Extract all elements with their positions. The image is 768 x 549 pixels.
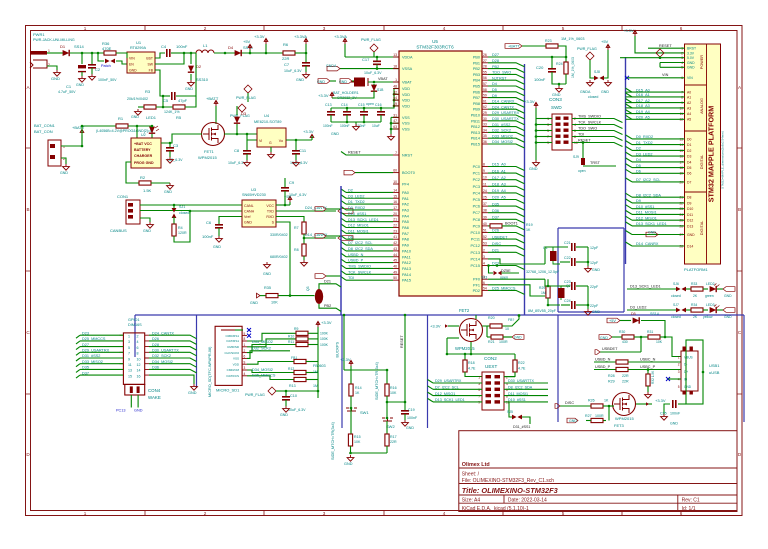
svg-text:D8_I2C2_SDA: D8_I2C2_SDA — [348, 247, 373, 251]
resistor R3 — [127, 89, 173, 109]
node USBDET — [600, 351, 641, 353]
diode D2 — [188, 52, 209, 82]
svg-text:D19_A4: D19_A4 — [492, 189, 506, 193]
svg-text:MICRO_SD1: MICRO_SD1 — [216, 388, 240, 393]
svg-text:PC6: PC6 — [473, 205, 480, 209]
svg-text:C6: C6 — [206, 220, 212, 225]
wire — [475, 315, 477, 319]
svg-text:+3.3V: +3.3V — [318, 93, 329, 98]
svg-text:13: 13 — [393, 53, 397, 57]
svg-text:DIGITAL: DIGITAL — [700, 221, 704, 236]
svg-text:51: 51 — [483, 229, 487, 233]
svg-text:ME6210-SOT89: ME6210-SOT89 — [254, 120, 281, 124]
svg-text:SW: SW — [148, 63, 154, 67]
svg-text:R26: R26 — [588, 399, 595, 403]
svg-text:R27: R27 — [585, 414, 592, 418]
svg-text:PC7: PC7 — [473, 211, 480, 215]
svg-text:C5: C5 — [163, 98, 169, 103]
wire — [404, 315, 406, 370]
svg-text:18: 18 — [393, 65, 397, 69]
svg-text:CANBUS: CANBUS — [110, 228, 127, 233]
svg-text:Q3: Q3 — [306, 286, 310, 291]
svg-text:1: 1 — [395, 78, 397, 82]
svg-text:R24: R24 — [556, 62, 563, 66]
svg-text:8M_8SV55_20pF: 8M_8SV55_20pF — [528, 309, 557, 313]
svg-text:PD2: PD2 — [473, 289, 480, 293]
svg-text:D25_MMCCS: D25_MMCCS — [492, 287, 516, 291]
svg-text:1M: 1M — [313, 384, 318, 388]
svg-text:D24_CANTX: D24_CANTX — [492, 105, 514, 109]
svg-text:DAT0/CS: DAT0/CS — [227, 374, 239, 378]
svg-text:1M_1%_0603: 1M_1%_0603 — [571, 57, 575, 78]
svg-text:100K: 100K — [320, 343, 329, 347]
svg-text:Size: A4: Size: A4 — [462, 498, 481, 504]
svg-text:1K: 1K — [604, 399, 609, 403]
svg-text:PA6: PA6 — [402, 226, 409, 230]
svg-text:39: 39 — [483, 215, 487, 219]
svg-text:D12_MISO1: D12_MISO1 — [636, 216, 657, 220]
svg-text:C11: C11 — [299, 148, 307, 153]
svg-text:12pF: 12pF — [590, 261, 599, 265]
svg-text:D8_I2C2_SDA: D8_I2C2_SDA — [508, 386, 533, 390]
svg-text:33: 33 — [483, 123, 487, 127]
svg-text:CMD/SD: CMD/SD — [227, 345, 240, 349]
svg-text:PB8: PB8 — [473, 102, 480, 106]
svg-text:31: 31 — [393, 113, 397, 117]
diode D3 — [234, 106, 247, 134]
svg-text:VDDA: VDDA — [402, 56, 413, 60]
svg-text:C14: C14 — [341, 103, 348, 107]
power +3.3V — [445, 324, 448, 328]
svg-text:10uF_6.3V: 10uF_6.3V — [284, 69, 302, 73]
svg-text:TXD: TXD — [267, 210, 275, 214]
svg-text:1M_1%_0603: 1M_1%_0603 — [561, 37, 584, 41]
svg-text:R5: R5 — [176, 115, 182, 120]
svg-text:R6: R6 — [283, 42, 289, 47]
svg-text:PA15: PA15 — [402, 279, 411, 283]
svg-text:GND: GND — [684, 385, 692, 389]
svg-text:B: B — [738, 207, 741, 212]
svg-text:D3_LED2: D3_LED2 — [636, 152, 652, 156]
svg-text:D8_I2C2_SDA: D8_I2C2_SDA — [636, 193, 661, 197]
solder jumper SJ1 — [172, 205, 190, 224]
svg-text:25: 25 — [483, 196, 487, 200]
svg-text:D19_A4: D19_A4 — [636, 110, 650, 114]
svg-text:Date: 2022-03-14: Date: 2022-03-14 — [508, 498, 547, 504]
ground — [585, 266, 592, 272]
ground — [605, 80, 612, 86]
solder jumper SJ6 — [676, 287, 686, 292]
wire platform digital nets — [632, 138, 685, 140]
power +5V — [289, 202, 291, 205]
svg-text:GND: GND — [296, 78, 304, 82]
svg-text:D6: D6 — [348, 235, 353, 239]
wire BOOT0 net — [355, 172, 393, 174]
svg-text:CANH: CANH — [244, 210, 255, 214]
svg-text:7: 7 — [478, 394, 480, 398]
svg-text:BST: BST — [146, 57, 153, 61]
svg-text:FB?: FB? — [508, 318, 514, 322]
svg-text:PB4: PB4 — [473, 79, 480, 83]
resistor R1 — [116, 116, 152, 128]
svg-text:D12_MISO1: D12_MISO1 — [435, 392, 455, 396]
svg-text:100nF: 100nF — [534, 77, 546, 82]
svg-text:19: 19 — [393, 102, 397, 106]
ground — [216, 236, 223, 242]
svg-text:CON4: CON4 — [148, 388, 161, 393]
svg-text:GND: GND — [514, 336, 522, 340]
svg-text:VSSA: VSSA — [402, 67, 413, 71]
resistor R4 — [172, 216, 190, 242]
svg-text:D1_TXD2: D1_TXD2 — [348, 200, 365, 204]
svg-text:green: green — [705, 294, 714, 298]
svg-text:+3.3V: +3.3V — [524, 99, 535, 104]
svg-text:3: 3 — [323, 26, 326, 31]
svg-text:57: 57 — [483, 82, 487, 86]
svg-text:D11: D11 — [687, 213, 693, 217]
capacitor C2 — [88, 53, 117, 82]
svg-text:PROG GND: PROG GND — [134, 161, 154, 165]
svg-text:GND: GND — [648, 231, 656, 235]
wire — [350, 411, 352, 434]
svg-text:9: 9 — [478, 401, 480, 405]
svg-text:5: 5 — [244, 332, 246, 336]
wire VSS rail — [391, 116, 399, 118]
ground — [264, 262, 271, 268]
wire PF1 net — [488, 285, 545, 296]
svg-text:DZ5E: DZ5E — [501, 269, 511, 273]
wire — [276, 204, 290, 206]
svg-text:PB0: PB0 — [473, 56, 480, 60]
svg-text:53: 53 — [483, 242, 487, 246]
svg-text:100nF_50V: 100nF_50V — [98, 78, 117, 82]
svg-text:A2: A2 — [687, 101, 691, 105]
svg-text:5: 5 — [678, 385, 680, 389]
capacitor C3 — [161, 143, 183, 162]
solder jumper SJ8 — [594, 76, 604, 81]
svg-text:D0: D0 — [687, 137, 691, 141]
svg-text:CHARGER: CHARGER — [134, 154, 153, 158]
resistor R13 — [247, 376, 294, 380]
svg-text:10: 10 — [393, 180, 397, 184]
svg-text:D12_MISO1: D12_MISO1 — [348, 224, 369, 228]
ground — [63, 164, 70, 170]
svg-text:C4: C4 — [161, 44, 167, 49]
svg-text:16: 16 — [393, 200, 397, 204]
svg-text:D33_MISO2: D33_MISO2 — [252, 340, 273, 344]
svg-text:D30_USARTTX: D30_USARTTX — [152, 349, 179, 353]
svg-text:WPM2015: WPM2015 — [198, 155, 217, 160]
svg-text:9: 9 — [128, 357, 130, 361]
capacitor C1 — [58, 53, 86, 94]
wire — [276, 222, 290, 296]
svg-text:GND: GND — [344, 462, 353, 466]
svg-text:D10_#SS1: D10_#SS1 — [508, 398, 526, 402]
svg-text:D4: D4 — [687, 160, 691, 164]
ground — [646, 232, 658, 237]
svg-text:D15_A0: D15_A0 — [492, 163, 506, 167]
svg-text:GND: GND — [188, 391, 197, 395]
wire VBUS — [665, 337, 681, 357]
svg-text:NJTRST: NJTRST — [492, 76, 507, 80]
svg-text:D18_A3: D18_A3 — [636, 104, 650, 108]
svg-text:D11_MOSI1: D11_MOSI1 — [348, 229, 369, 233]
svg-text:SIDE_MTCH=TR(3x4): SIDE_MTCH=TR(3x4) — [375, 361, 379, 400]
svg-text:R20: R20 — [488, 316, 495, 320]
svg-text:UEXT: UEXT — [485, 364, 497, 369]
svg-text:470E: 470E — [102, 46, 112, 51]
svg-text:open: open — [578, 169, 586, 173]
resistor R27 — [608, 406, 610, 421]
crystal Q1 — [550, 251, 557, 261]
svg-text:EN: EN — [129, 63, 134, 67]
svg-text:D9: D9 — [687, 201, 691, 205]
svg-text:closed: closed — [671, 315, 681, 319]
svg-text:NRST: NRST — [402, 154, 413, 158]
node +BATT — [505, 44, 522, 49]
svg-text:120R: 120R — [178, 231, 187, 235]
svg-text:A4: A4 — [687, 112, 691, 116]
svg-text:35: 35 — [483, 134, 487, 138]
svg-text:PB10: PB10 — [471, 114, 480, 118]
svg-text:C9: C9 — [289, 180, 295, 185]
svg-text:PC10: PC10 — [471, 231, 481, 235]
connector CON3 SWD — [547, 97, 578, 150]
svg-text:100K: 100K — [320, 332, 329, 336]
svg-text:PC8: PC8 — [473, 218, 480, 222]
svg-text:R14: R14 — [355, 386, 362, 390]
svg-text:D7: D7 — [687, 180, 691, 184]
svg-text:100K: 100K — [320, 337, 329, 341]
svg-text:34: 34 — [483, 128, 487, 132]
svg-text:D4: D4 — [636, 158, 641, 162]
svg-text:R34: R34 — [691, 303, 697, 307]
svg-text:VSS: VSS — [402, 128, 410, 132]
LED LED2 — [710, 286, 717, 292]
resistor R31 — [648, 335, 660, 339]
svg-text:R32 1.5K: R32 1.5K — [651, 370, 655, 384]
svg-text:B: B — [26, 207, 29, 212]
svg-text:37: 37 — [483, 202, 487, 206]
svg-text:SWD: SWD — [551, 105, 562, 110]
svg-text:PB2: PB2 — [473, 67, 480, 71]
svg-text:PA12: PA12 — [402, 261, 411, 265]
svg-text:C21: C21 — [564, 241, 571, 245]
svg-text:closed: closed — [671, 294, 681, 298]
wire — [331, 121, 381, 123]
svg-text:PB6: PB6 — [473, 90, 480, 94]
svg-text:+5V: +5V — [601, 39, 609, 44]
svg-text:6: 6 — [483, 281, 485, 285]
power flag PWR_FLAG — [370, 44, 378, 52]
wire D21 net — [488, 252, 525, 256]
svg-text:680R/0402: 680R/0402 — [270, 255, 288, 259]
svg-text:C1: C1 — [66, 84, 72, 89]
svg-text:24: 24 — [483, 189, 487, 193]
svg-text:D4: D4 — [228, 45, 234, 50]
svg-text:17: 17 — [393, 206, 397, 210]
svg-text:27: 27 — [483, 59, 487, 63]
svg-text:C: C — [26, 330, 30, 335]
ground — [283, 406, 290, 412]
svg-text:GND: GND — [687, 66, 695, 70]
svg-text:WAKE: WAKE — [148, 395, 161, 400]
svg-text:C: C — [738, 330, 742, 335]
connector MICRO_SD1 — [208, 326, 247, 397]
ground — [533, 160, 540, 166]
svg-text:PB5: PB5 — [473, 85, 480, 89]
svg-text:GNDA: GNDA — [580, 90, 591, 94]
svg-text:C3: C3 — [173, 143, 179, 148]
svg-text:C7: C7 — [284, 62, 290, 67]
resistor R11 — [247, 345, 296, 353]
svg-text:yellow: yellow — [703, 315, 713, 319]
svg-text:uUSB: uUSB — [709, 370, 720, 375]
svg-text:D25_MMCCS: D25_MMCCS — [252, 373, 276, 377]
svg-text:3: 3 — [128, 340, 130, 344]
ground — [167, 183, 174, 189]
svg-text:VDD: VDD — [402, 104, 410, 108]
svg-text:5: 5 — [562, 26, 565, 31]
svg-text:330R/0402: 330R/0402 — [270, 233, 288, 237]
svg-text:CMD/RS1: CMD/RS1 — [225, 334, 239, 338]
svg-text:BAT_CON: BAT_CON — [34, 129, 53, 134]
svg-text:D15_A0: D15_A0 — [636, 88, 650, 92]
svg-text:1: 1 — [84, 511, 87, 516]
svg-text:PB1: PB1 — [473, 61, 480, 65]
capacitor C11 — [290, 140, 308, 165]
svg-text:R4: R4 — [178, 226, 183, 230]
U5 left pins — [393, 56, 399, 58]
ground — [188, 80, 195, 86]
svg-text:BAT_CON1: BAT_CON1 — [34, 123, 56, 128]
svg-text:PC13: PC13 — [471, 251, 481, 255]
svg-text:D24_CANTX: D24_CANTX — [152, 331, 174, 335]
svg-text:7: 7 — [395, 151, 397, 155]
svg-text:D0_RXD2: D0_RXD2 — [636, 135, 653, 139]
svg-text:Olimex Ltd: Olimex Ltd — [462, 462, 490, 468]
svg-text:22R: 22R — [622, 380, 629, 384]
svg-text:5: 5 — [128, 346, 130, 350]
svg-text:D7_I2C2_SCL: D7_I2C2_SCL — [435, 386, 459, 390]
svg-text:30: 30 — [483, 117, 487, 121]
svg-text:D3: D3 — [241, 111, 247, 116]
node D24_CANTX — [338, 209, 353, 214]
svg-text:8: 8 — [483, 163, 485, 167]
svg-text:GND: GND — [213, 245, 221, 249]
svg-text:+3.3V: +3.3V — [321, 320, 332, 325]
resistor R15 — [348, 434, 352, 446]
svg-text:1: 1 — [48, 49, 50, 53]
power +5V — [606, 44, 610, 50]
svg-text:USBDET: USBDET — [602, 347, 618, 351]
node +5V — [607, 318, 620, 323]
svg-text:D18_A3: D18_A3 — [492, 183, 506, 187]
svg-text:100nF: 100nF — [202, 234, 214, 239]
svg-text:PA7: PA7 — [402, 232, 409, 236]
ground — [645, 392, 652, 398]
ground GNDA — [587, 80, 594, 86]
svg-text:32768_1206_12.5pF: 32768_1206_12.5pF — [526, 270, 560, 274]
wire GND platform — [660, 62, 685, 64]
svg-text:G: G — [269, 141, 272, 145]
svg-text:PA2: PA2 — [402, 203, 409, 207]
wire — [482, 326, 487, 337]
LED LED3 — [710, 307, 717, 313]
svg-text:1K: 1K — [526, 228, 531, 232]
switch SW2 — [382, 418, 393, 421]
svg-text:D10_#SS1: D10_#SS1 — [636, 205, 654, 209]
svg-text:PB9: PB9 — [473, 108, 480, 112]
resistor R9 — [247, 333, 296, 341]
svg-text:PC0: PC0 — [473, 165, 480, 169]
svg-text:9: 9 — [483, 169, 485, 173]
ground — [135, 109, 142, 115]
svg-text:SJ8: SJ8 — [594, 70, 600, 74]
svg-text:D5: D5 — [687, 166, 691, 170]
capacitor C22 — [572, 258, 575, 266]
svg-text:430: 430 — [622, 340, 628, 344]
resistor R34 — [691, 308, 703, 312]
svg-text:D14: D14 — [687, 244, 693, 248]
solder jumper SJ5 — [509, 402, 512, 417]
wire — [326, 275, 341, 277]
svg-text:10: 10 — [505, 327, 509, 331]
resistor R33 — [691, 287, 703, 291]
resistor R10 — [247, 339, 296, 347]
svg-text:3: 3 — [244, 366, 246, 370]
svg-text:D20_A5: D20_A5 — [492, 196, 506, 200]
capacitor C7 — [284, 52, 310, 73]
svg-text:29: 29 — [483, 111, 487, 115]
svg-text:PC12: PC12 — [471, 244, 481, 248]
svg-text:62: 62 — [483, 105, 487, 109]
svg-text:D2: D2 — [636, 147, 641, 151]
transistor FET3 — [613, 393, 636, 416]
svg-text:VCC: VCC — [266, 204, 274, 208]
ground — [270, 147, 272, 152]
svg-text:55: 55 — [483, 70, 487, 74]
svg-text:3: 3 — [323, 511, 326, 516]
svg-text:D26: D26 — [152, 337, 159, 341]
svg-text:D1_TXD2: D1_TXD2 — [636, 141, 653, 145]
svg-text:TDO_SWO: TDO_SWO — [492, 71, 511, 75]
wire platform analog nets — [626, 91, 633, 93]
svg-text:D16_A1: D16_A1 — [636, 93, 650, 97]
connector PLATFORM1 — [685, 44, 721, 264]
wire D27 net — [488, 56, 566, 58]
resistor R23 — [546, 44, 558, 48]
battery BAT_HOLDER1 — [333, 78, 368, 101]
svg-text:20: 20 — [393, 212, 397, 216]
capacitor C6 — [202, 217, 242, 240]
svg-text:GND: GND — [60, 171, 68, 175]
svg-text:10K: 10K — [656, 340, 663, 344]
resistor R7 — [270, 222, 306, 244]
ground — [388, 134, 395, 140]
svg-text:D1: D1 — [687, 143, 691, 147]
svg-text:10: 10 — [137, 357, 141, 361]
svg-text:R33: R33 — [691, 282, 697, 286]
svg-text:R35: R35 — [264, 286, 271, 290]
svg-text:D8: D8 — [687, 196, 691, 200]
connector USB1 — [678, 351, 721, 391]
wire U5 PB nets — [488, 63, 525, 67]
svg-text:DISC: DISC — [492, 242, 501, 246]
svg-text:1K: 1K — [355, 391, 360, 395]
svg-text:Rev: C1: Rev: C1 — [682, 498, 700, 504]
svg-text:USB1: USB1 — [709, 363, 720, 368]
